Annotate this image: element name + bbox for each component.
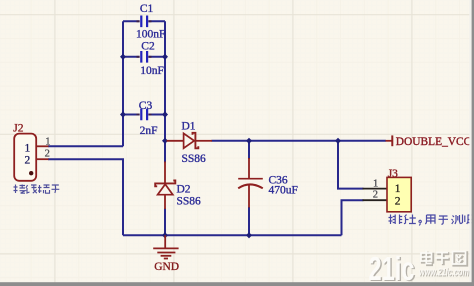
svg-text:D1: D1 — [182, 121, 196, 133]
svg-text:www.21ic.com: www.21ic.com — [419, 267, 469, 279]
svg-text:10nF: 10nF — [140, 65, 164, 77]
svg-text:C3: C3 — [139, 100, 153, 112]
svg-text:SS86: SS86 — [177, 196, 202, 208]
svg-text:D2: D2 — [177, 183, 191, 195]
svg-text:2: 2 — [25, 155, 31, 167]
svg-text:SS86: SS86 — [182, 153, 207, 165]
svg-text:1: 1 — [45, 136, 50, 147]
svg-text:1: 1 — [373, 178, 378, 189]
svg-text:2: 2 — [45, 149, 50, 160]
svg-text:1: 1 — [25, 142, 31, 154]
svg-text:C2: C2 — [141, 41, 155, 53]
svg-text:100nF: 100nF — [136, 28, 165, 40]
svg-text:J3: J3 — [388, 168, 398, 180]
svg-text:C1: C1 — [140, 3, 154, 15]
svg-text:DOUBLE_VCC: DOUBLE_VCC — [396, 134, 472, 148]
svg-text:2: 2 — [373, 190, 378, 201]
svg-text:470uF: 470uF — [269, 184, 298, 196]
svg-text:J2: J2 — [13, 123, 23, 135]
svg-text:1: 1 — [395, 183, 401, 195]
svg-text:21ic: 21ic — [369, 250, 415, 286]
svg-text:GND: GND — [154, 261, 179, 273]
svg-text:2nF: 2nF — [140, 125, 158, 137]
svg-text:2: 2 — [395, 196, 401, 208]
